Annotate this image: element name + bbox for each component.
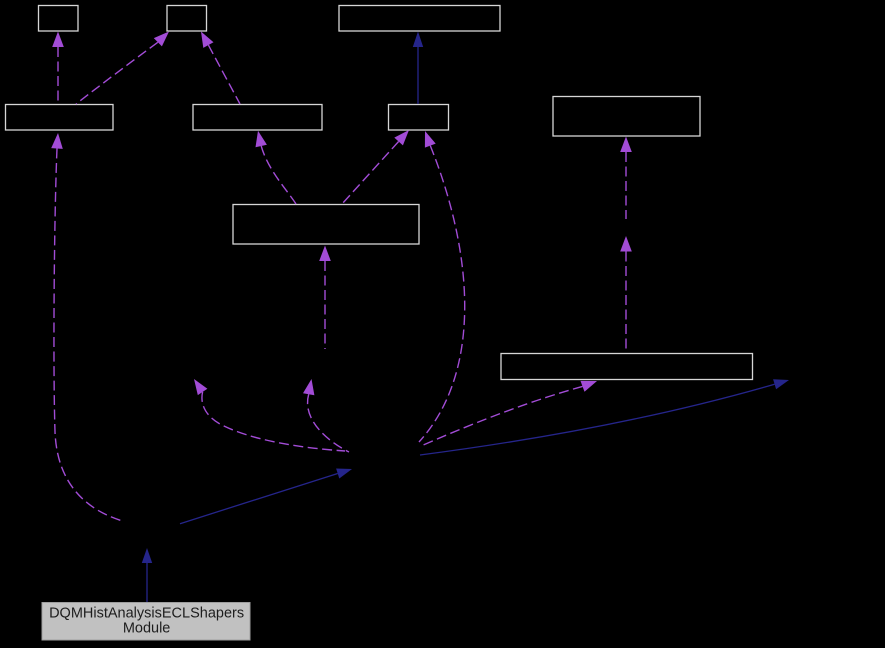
edge P2 dashed boxA to box2 (76, 32, 169, 105)
edge blue B2 invisible node N1 to hub N2 (180, 469, 352, 524)
node box3 (top wide class box) (339, 6, 500, 32)
edge P1 dashed boxA to box1 (52, 32, 64, 105)
node boxD (row2 right two-line class box) (553, 97, 700, 137)
edge P6 dashed hub N2 to boxC (right bowed curve) (419, 131, 465, 442)
edge P11 dashed hub N2 to invisible node IN2 (194, 379, 345, 451)
edge blue inheritance boxC to box3 (413, 32, 423, 105)
edge P12 dashed hub N2 to boxE (421, 381, 597, 446)
node boxA (row2 left class box) (6, 105, 114, 131)
edge P7 dashed boxE to invisible node IN1 (620, 236, 632, 353)
edge P10 dashed hub N2 to invisible node IN3 (303, 379, 349, 452)
node boxC (row2 small class box) (389, 105, 449, 131)
svg-text:DQMHistAnalysisECLShapers: DQMHistAnalysisECLShapers (49, 605, 244, 621)
node box1 (top-left small class box) (39, 6, 79, 32)
node main DQMHistAnalysisECLShapersModule (highlighted gray) (42, 603, 250, 641)
node boxF (row3 two-line class box) (233, 205, 419, 245)
edge blue B3 hub N2 to right invisible node (420, 379, 789, 455)
svg-text:Module: Module (123, 620, 171, 636)
edge P5 dashed boxF to boxC (342, 130, 409, 204)
edge P9 dashed invisible node IN3 to boxF (319, 246, 331, 350)
edge P4 dashed boxF to boxB (256, 131, 297, 204)
edge P8 dashed invisible node IN1 to boxD (620, 137, 632, 220)
edge blue B1 grayBox to invisible node N1 (142, 548, 152, 602)
node boxE (middle wide class box) (501, 354, 753, 380)
edge P13 dashed invisible node N1 to boxA (long left curve) (51, 133, 121, 521)
node box2 (top second small class box) (167, 6, 207, 32)
node boxB (row2 middle class box) (193, 105, 322, 131)
edge P3 dashed boxB to box2 (201, 32, 240, 105)
